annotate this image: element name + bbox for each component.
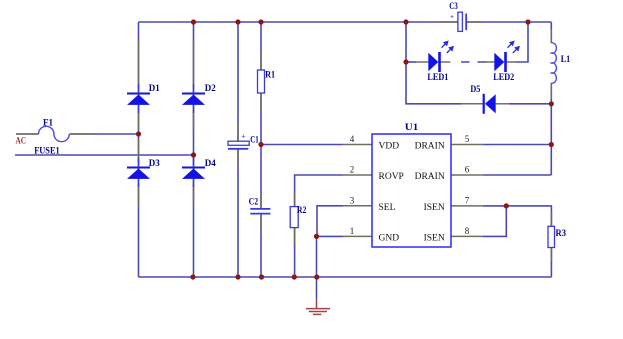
pin stub U1 pin7 <box>451 205 483 207</box>
junction dot top rail col R1 <box>258 19 263 24</box>
junction dot bottom rail col C1 <box>235 274 240 279</box>
svg-text:AC: AC <box>16 135 27 145</box>
resistor R2 <box>290 207 298 228</box>
junction dot top rail col B <box>191 19 196 24</box>
svg-text:R1: R1 <box>265 71 275 81</box>
pin stub R1 top <box>260 52 262 70</box>
junction dot SEL/GND tie <box>314 234 319 239</box>
svg-text:5: 5 <box>465 134 470 144</box>
pin stub fuse right <box>70 133 93 135</box>
wire LED dashed series link <box>461 61 487 63</box>
pin stub LED1 right <box>441 61 451 63</box>
svg-text:8: 8 <box>465 226 470 236</box>
diode D5 <box>484 94 496 114</box>
wire fuse to bridge <box>70 133 139 135</box>
diode D4 <box>182 158 205 187</box>
wire column R1 to C2 <box>260 93 262 209</box>
junction dot bottom rail R2 <box>292 274 297 279</box>
wire top rail right of C3 <box>466 21 551 23</box>
pin stub D3 bottom <box>138 184 140 206</box>
junction dot bottom rail col C2 <box>259 274 264 279</box>
svg-text:+: + <box>241 132 245 141</box>
wire FUSE1 net <box>15 154 194 156</box>
pin stub R3 bottom <box>550 248 552 263</box>
svg-text:4: 4 <box>350 134 355 144</box>
pin stub D5 right <box>496 103 509 105</box>
svg-text:DRAIN: DRAIN <box>415 142 445 152</box>
svg-text:LED2: LED2 <box>493 73 514 83</box>
svg-text:C3: C3 <box>449 2 458 12</box>
ground <box>306 299 330 315</box>
svg-text:1: 1 <box>350 226 355 236</box>
diode D2 <box>182 84 205 113</box>
wire LED branch left column <box>406 22 461 104</box>
pin stub D5 left <box>461 103 483 105</box>
wire column C2 lower <box>260 214 262 277</box>
wire DRAIN pin5 <box>483 144 552 146</box>
svg-text:D1: D1 <box>149 84 160 94</box>
pin stub D3 top <box>138 140 140 162</box>
svg-text:C1: C1 <box>250 136 259 146</box>
svg-text:D5: D5 <box>470 85 480 95</box>
wire L1 column <box>550 22 552 43</box>
junction dot LED1 branch <box>403 59 408 64</box>
svg-text:U1: U1 <box>405 123 419 133</box>
svg-text:LED1: LED1 <box>427 73 448 83</box>
svg-text:SEL: SEL <box>379 203 396 213</box>
pin stub U1 pin8 <box>451 235 483 237</box>
pin stub LED1 left <box>417 61 429 63</box>
wire AC input <box>16 133 39 135</box>
wire bottom rail <box>139 276 552 278</box>
pin stub R3 top <box>550 212 552 226</box>
pin stub D1 top <box>138 40 140 88</box>
wire LED2 to top rail <box>516 22 528 62</box>
pin stub U1 pin5 <box>451 144 483 146</box>
svg-text:D3: D3 <box>149 159 160 169</box>
svg-text:7: 7 <box>465 195 470 205</box>
wire L1 bottom to DRAIN node <box>550 83 552 175</box>
diode D3 <box>127 158 150 187</box>
pin stub LED2 left <box>484 61 494 63</box>
wire DRAIN pin6 <box>483 174 552 176</box>
svg-text:FUSE1: FUSE1 <box>34 147 60 157</box>
svg-text:R3: R3 <box>556 229 567 239</box>
diode D1 <box>127 84 150 113</box>
LED LED2 <box>494 41 520 73</box>
junction dot top rail LED branch <box>403 19 408 24</box>
svg-text:F1: F1 <box>43 119 53 129</box>
junction dot bottom rail GND <box>314 274 319 279</box>
junction dot ISEN node <box>504 203 509 208</box>
svg-text:ISEN: ISEN <box>424 233 445 243</box>
capacitor C1 <box>228 132 249 149</box>
resistor R3 <box>548 226 555 247</box>
svg-text:L1: L1 <box>561 55 571 65</box>
pin stub D4 top <box>193 159 195 162</box>
capacitor C3 <box>450 12 466 31</box>
wire column B (D2/D4 branch) <box>193 22 195 277</box>
pin stub C1 bottom <box>237 149 239 167</box>
pin stub L1 bottom <box>550 83 552 99</box>
resistor R1 <box>258 70 265 93</box>
pin stub R2 bottom <box>294 227 296 245</box>
pin stub U1 pin3 <box>343 205 372 207</box>
capacitor C2 <box>250 209 270 214</box>
pin stub L1 top <box>550 30 552 43</box>
wire R3 bottom <box>550 248 552 278</box>
svg-text:GND: GND <box>379 233 400 243</box>
pin stub D2 bottom <box>193 110 195 130</box>
pin stub D2 top <box>193 40 195 88</box>
wire ROVP pin2 to R2 <box>295 175 343 207</box>
junction dot D5/L1 node <box>549 101 554 106</box>
wire D5 right to L1 column <box>509 103 552 105</box>
wire LED row left <box>406 61 417 63</box>
pin stub U1 pin4 <box>343 144 372 146</box>
wire column R1/C2 upper <box>260 22 262 70</box>
wire VDD pin4 <box>261 144 343 146</box>
wire column C1 upper <box>237 22 239 141</box>
junction dot FUSE1 node <box>191 152 196 157</box>
pin stub C1 top <box>237 123 239 141</box>
svg-text:3: 3 <box>350 195 355 205</box>
wire ISEN pin7 to R3 <box>483 206 552 226</box>
junction dot AC fuse node <box>136 131 141 136</box>
svg-text:D4: D4 <box>205 159 216 169</box>
junction dot bottom rail col B <box>190 274 195 279</box>
pin stub U1 pin2 <box>343 174 372 176</box>
pin stub C2 top <box>260 193 262 209</box>
wire left column A (D1/D3 branch) <box>138 22 140 277</box>
pin stub LED2 right <box>507 61 516 63</box>
svg-text:+: + <box>450 13 454 21</box>
pin stub D1 bottom <box>138 110 140 130</box>
svg-text:DRAIN: DRAIN <box>415 172 445 182</box>
pin stub D4 bottom <box>193 184 195 206</box>
pin stub C2 bottom <box>260 214 262 230</box>
wire top rail left of C3 <box>139 21 458 23</box>
wire ISEN pin8 <box>483 206 507 237</box>
junction dot DRAIN node <box>549 142 554 147</box>
fuse F1 <box>39 126 70 141</box>
wire column C1 lower <box>237 149 239 277</box>
pin stub R2 top <box>294 193 296 207</box>
wire GND pin1 <box>317 235 344 237</box>
svg-text:ROVP: ROVP <box>379 172 404 182</box>
wire GND node to bottom rail <box>316 236 318 298</box>
pin stub U1 pin6 <box>451 174 483 176</box>
inductor L1 <box>551 43 556 83</box>
wire R2 bottom <box>294 227 296 277</box>
junction dot top rail C3 right <box>525 19 530 24</box>
svg-text:2: 2 <box>350 165 355 175</box>
svg-text:VDD: VDD <box>379 142 400 152</box>
svg-text:6: 6 <box>465 165 470 175</box>
LED LED1 <box>428 41 454 73</box>
pin stub R1 bottom <box>260 93 262 111</box>
svg-text:D2: D2 <box>205 84 216 94</box>
wire SEL pin3 <box>317 206 343 237</box>
svg-text:C2: C2 <box>249 198 259 208</box>
junction dot VDD branch <box>258 142 263 147</box>
pin stub U1 pin1 <box>343 235 372 237</box>
pin stub C3 left <box>440 21 458 23</box>
junction dot top rail col C1 <box>235 19 240 24</box>
op-amp U1 (IC body) <box>372 134 451 247</box>
svg-text:R2: R2 <box>297 206 307 216</box>
svg-text:ISEN: ISEN <box>424 203 445 213</box>
pin stub C3 right <box>467 21 485 23</box>
pin stub fuse left <box>16 133 39 135</box>
